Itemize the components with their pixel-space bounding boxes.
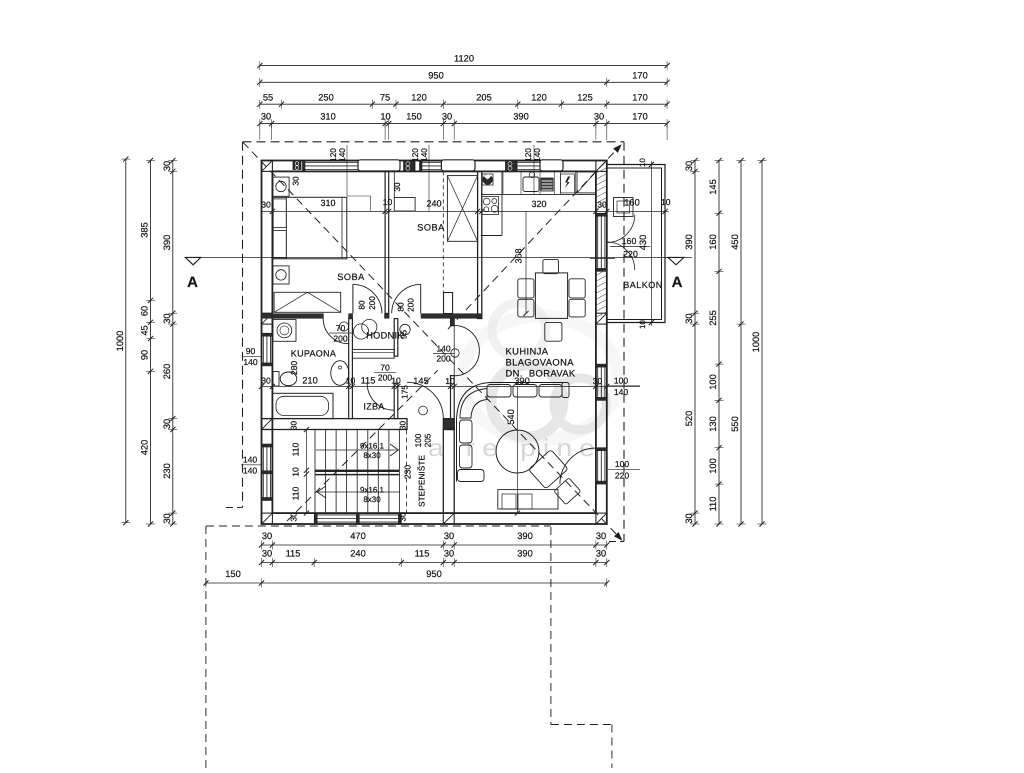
- sofa back L outline: [457, 383, 564, 482]
- balcony door DW right wall: [597, 213, 599, 271]
- svg-text:100: 100: [413, 433, 423, 447]
- svg-text:30: 30: [162, 161, 172, 171]
- svg-text:140: 140: [337, 148, 347, 162]
- wall B2 stub right of stair door: [443, 419, 454, 430]
- svg-text:BLAGOVAONA: BLAGOVAONA: [506, 357, 575, 368]
- hodnik circle near soba2 door: [400, 324, 410, 334]
- svg-text:200: 200: [333, 334, 348, 344]
- svg-text:390: 390: [513, 112, 529, 122]
- coffee table round: [496, 430, 539, 473]
- roof overhang dashed outline right: [623, 142, 625, 542]
- svg-text:SOBA: SOBA: [337, 272, 365, 282]
- svg-text:80: 80: [356, 300, 366, 310]
- svg-text:160: 160: [708, 234, 718, 250]
- svg-text:75: 75: [380, 92, 390, 102]
- wardrobe soba1: [274, 292, 341, 312]
- column marker: [262, 161, 273, 172]
- partition P1 soba1/soba2: [385, 171, 389, 313]
- svg-text:70: 70: [336, 323, 346, 333]
- svg-text:250: 250: [318, 92, 334, 102]
- svg-text:220: 220: [623, 249, 638, 259]
- svg-text:170: 170: [632, 112, 648, 122]
- window W5 glazing: [597, 448, 599, 484]
- living dim 540: [516, 386, 518, 513]
- svg-text:30: 30: [262, 549, 272, 559]
- svg-text:205: 205: [423, 433, 433, 447]
- dim chain right windows: [718, 161, 720, 525]
- toilet: [273, 372, 279, 387]
- window W4 glazing: [597, 364, 599, 400]
- window W4 jambs: [596, 364, 607, 367]
- window W7 jambs: [262, 444, 273, 447]
- svg-text:30: 30: [162, 313, 172, 323]
- roof diagonal NW-SE dashed: [243, 142, 619, 536]
- svg-text:30: 30: [261, 375, 271, 385]
- svg-text:30: 30: [162, 513, 172, 523]
- section marker A right triangle: [668, 257, 684, 264]
- svg-text:115: 115: [415, 549, 430, 559]
- dim chain right 450/550: [740, 161, 742, 525]
- dim chain left inner: [172, 161, 174, 525]
- dim chain top walls: [260, 123, 667, 125]
- exterior wall outer outline: [262, 161, 607, 525]
- svg-text:1000: 1000: [751, 332, 761, 353]
- svg-text:120: 120: [531, 92, 547, 102]
- door living terrace arc: [560, 448, 596, 484]
- svg-text:200: 200: [378, 373, 393, 383]
- svg-text:230: 230: [403, 465, 413, 480]
- svg-text:90: 90: [246, 346, 256, 356]
- sofa armrest end bottom: [458, 470, 485, 482]
- window W3 glazing: [517, 161, 540, 163]
- svg-text:950: 950: [428, 71, 444, 81]
- section line A-A: [185, 256, 692, 258]
- kitchen stove dark striped: [541, 178, 553, 191]
- sofa cushions horizontal: [487, 385, 511, 398]
- sofa armrest end top: [562, 383, 569, 398]
- svg-text:230: 230: [162, 463, 172, 479]
- kitchen sink unit: [523, 177, 539, 192]
- svg-text:210: 210: [302, 375, 318, 385]
- svg-text:110: 110: [291, 486, 301, 500]
- double door hodnik-living semicircle: [454, 325, 479, 375]
- hodnik ceiling lamp circles: [353, 324, 368, 339]
- svg-text:200: 200: [436, 354, 451, 364]
- wall stub P4 top in soba2: [444, 293, 453, 314]
- svg-text:280: 280: [289, 361, 299, 376]
- terrace dashed outline step vertical: [611, 725, 613, 769]
- svg-text:205: 205: [476, 92, 492, 102]
- svg-text:950: 950: [426, 569, 442, 579]
- svg-text:200: 200: [406, 298, 416, 312]
- partition P4 hodnik/living lower segment: [451, 376, 455, 430]
- door stairs arc: [407, 382, 443, 418]
- balcony outer rail: [607, 165, 665, 323]
- svg-text:520: 520: [684, 411, 694, 427]
- partition P6 below izba door: [394, 383, 398, 418]
- washing machine: [273, 319, 296, 341]
- svg-text:145: 145: [708, 179, 718, 195]
- window W1 crank block: [293, 161, 301, 170]
- nightstand top with lamp: [273, 177, 289, 196]
- dim chain top windows: [260, 103, 667, 105]
- interior dim row y211: [262, 210, 669, 212]
- door izba arc: [367, 383, 394, 410]
- svg-text:390: 390: [517, 531, 533, 541]
- svg-text:140: 140: [243, 357, 258, 367]
- roof overhang dashed left tail: [226, 507, 243, 509]
- svg-text:1120: 1120: [454, 54, 474, 64]
- window W2 crank block: [404, 161, 415, 172]
- svg-text:240: 240: [350, 549, 366, 559]
- double door knob circle: [451, 349, 459, 357]
- floor drain: [339, 322, 348, 331]
- svg-text:150: 150: [406, 112, 422, 122]
- svg-text:30: 30: [596, 531, 606, 541]
- svg-text:10: 10: [291, 467, 301, 477]
- nightstand bottom with lamp: [273, 266, 289, 284]
- svg-text:70: 70: [380, 363, 390, 373]
- dining chairs left: [518, 279, 534, 298]
- column marker: [262, 313, 273, 324]
- armchair rotated: [528, 450, 568, 489]
- kitchen counter top run: [482, 193, 596, 195]
- svg-text:110: 110: [291, 442, 301, 456]
- door soba2 arc: [392, 284, 421, 313]
- svg-text:30: 30: [444, 531, 454, 541]
- svg-text:140: 140: [243, 466, 258, 476]
- window W6 jambs: [262, 333, 273, 336]
- svg-text:100: 100: [708, 458, 718, 474]
- svg-text:8x30: 8x30: [363, 495, 381, 504]
- wardrobe soba2: [447, 176, 477, 242]
- svg-text:45: 45: [140, 325, 150, 335]
- column marker: [262, 419, 273, 430]
- balcony depth dim 430: [650, 161, 652, 326]
- svg-text:SOBA: SOBA: [417, 223, 445, 233]
- dim chain top 1120: [260, 65, 667, 67]
- svg-text:385: 385: [140, 222, 150, 238]
- svg-text:9x16,1: 9x16,1: [360, 442, 385, 451]
- svg-text:BALKON: BALKON: [623, 280, 663, 290]
- svg-text:DN. BORAVAK: DN. BORAVAK: [506, 368, 576, 379]
- svg-text:A: A: [187, 274, 198, 291]
- svg-text:30: 30: [684, 313, 694, 323]
- stairs width dims 110/10/110: [306, 430, 308, 514]
- roof overhang dashed outline top: [243, 141, 625, 143]
- kitchen sink basin square: [482, 174, 493, 185]
- svg-text:10: 10: [661, 197, 671, 207]
- partition P2 soba2/kitchen: [478, 171, 482, 318]
- bed pillows: [273, 199, 286, 228]
- sofa corner cushion: [460, 389, 487, 419]
- svg-text:100: 100: [614, 376, 629, 386]
- svg-text:390: 390: [684, 234, 694, 250]
- stair treads: [314, 430, 316, 514]
- terrace dashed outline left vertical: [205, 526, 207, 768]
- svg-text:120: 120: [411, 92, 427, 102]
- svg-text:IZBA: IZBA: [363, 402, 384, 412]
- svg-text:140: 140: [419, 148, 429, 162]
- svg-text:320: 320: [531, 199, 546, 209]
- roof diagonal SW-NE dashed upper: [448, 148, 619, 330]
- dim chain bottom walls: [262, 544, 607, 546]
- svg-text:390: 390: [517, 549, 533, 559]
- svg-text:HODNIK: HODNIK: [366, 331, 404, 341]
- stair flight arrow up: [316, 449, 397, 451]
- svg-text:125: 125: [577, 92, 593, 102]
- sofa cushions vertical: [460, 420, 473, 443]
- desk soba2: [394, 198, 415, 212]
- dim chain bottom windows: [262, 562, 607, 564]
- svg-text:STEPENIŠTE: STEPENIŠTE: [417, 454, 427, 507]
- svg-text:420: 420: [140, 440, 150, 456]
- svg-text:140: 140: [532, 148, 542, 162]
- window W1 roller box: [358, 160, 400, 171]
- svg-text:30: 30: [398, 421, 408, 431]
- svg-text:30: 30: [444, 549, 454, 559]
- window W2 roller box: [441, 160, 475, 171]
- dining chair top: [543, 259, 559, 273]
- svg-text:9x16,1: 9x16,1: [360, 486, 385, 495]
- svg-text:30: 30: [261, 200, 271, 210]
- window W6 glazing: [262, 333, 264, 366]
- window W2 jambs: [420, 161, 423, 172]
- terrace dashed outline under house: [206, 525, 551, 527]
- svg-text:430: 430: [638, 235, 648, 251]
- stairwell dashed edge: [406, 430, 408, 514]
- svg-text:470: 470: [350, 531, 366, 541]
- svg-text:55: 55: [263, 92, 273, 102]
- svg-text:30: 30: [392, 182, 402, 192]
- svg-text:KUHINJA: KUHINJA: [506, 346, 549, 357]
- wall hatch pier above balcony door: [597, 168, 607, 209]
- svg-text:10: 10: [638, 158, 647, 167]
- column marker: [596, 161, 607, 172]
- svg-text:260: 260: [162, 364, 172, 380]
- column marker: [596, 513, 607, 524]
- balcony furniture square: [614, 198, 634, 217]
- svg-text:450: 450: [730, 234, 740, 250]
- tv bench: [498, 490, 558, 509]
- svg-text:390: 390: [162, 235, 172, 251]
- partition P4 hodnik/living upper segment: [451, 319, 455, 326]
- svg-text:KUPAONA: KUPAONA: [291, 349, 336, 359]
- svg-text:540: 540: [506, 409, 516, 425]
- column marker: [262, 513, 273, 524]
- svg-text:30: 30: [162, 419, 172, 429]
- wall B2 kupaona/stairs band: [262, 419, 408, 430]
- window W5 jambs: [596, 448, 607, 451]
- svg-text:30: 30: [291, 176, 301, 186]
- izba closet: [352, 349, 394, 358]
- dim chain right inner: [694, 161, 696, 525]
- svg-text:1000: 1000: [115, 331, 125, 352]
- terrace dashed outline right vertical: [550, 527, 552, 725]
- window W1 jambs: [303, 161, 306, 172]
- svg-text:550: 550: [730, 416, 740, 432]
- door soba1 arc: [353, 284, 382, 313]
- door kupaona arc: [323, 319, 348, 344]
- svg-text:30: 30: [289, 512, 299, 522]
- window W7 mid divider: [262, 471, 273, 474]
- roof overhang dashed outline bottom-right: [609, 541, 624, 543]
- svg-text:175: 175: [400, 385, 410, 399]
- kitchen corner cabinet: [577, 172, 596, 193]
- svg-text:140: 140: [243, 455, 258, 465]
- svg-text:10: 10: [445, 376, 455, 386]
- window W1 glazing: [305, 161, 358, 163]
- svg-text:145: 145: [413, 376, 429, 386]
- balcony door swing arcs: [607, 215, 635, 243]
- svg-text:310: 310: [320, 112, 336, 122]
- svg-text:170: 170: [632, 71, 648, 81]
- stair door knob circle: [419, 406, 428, 415]
- svg-text:368: 368: [514, 248, 524, 263]
- wall hatch pier below balcony door: [597, 270, 607, 317]
- stair mid landing line: [315, 470, 399, 472]
- washbasin: [331, 361, 349, 386]
- svg-text:30: 30: [398, 512, 408, 522]
- terrace dashed outline step horizontal: [551, 724, 612, 726]
- svg-text:255: 255: [708, 310, 718, 326]
- svg-text:30: 30: [684, 161, 694, 171]
- kitchen counter dividers: [502, 171, 504, 194]
- window W3 jambs: [515, 161, 518, 172]
- partition P5 kupaona right: [349, 319, 353, 419]
- interior dim row y386: [262, 385, 641, 387]
- svg-text:10: 10: [638, 320, 647, 329]
- svg-text:60: 60: [140, 306, 150, 316]
- kitchen appliance lightning symbol: [561, 174, 575, 193]
- svg-text:170: 170: [632, 92, 648, 102]
- svg-text:30: 30: [594, 112, 604, 122]
- svg-text:150: 150: [225, 569, 241, 579]
- kitchen dim 368: [525, 211, 527, 313]
- dim chain left mid: [150, 161, 152, 525]
- window W3 crank block: [506, 161, 518, 172]
- window W8 bottom stairs: [314, 514, 401, 516]
- ottoman rotated: [554, 478, 581, 505]
- svg-text:8x30: 8x30: [363, 451, 381, 460]
- partition P6 izba/hodnik: [394, 319, 398, 357]
- exterior wall inner outline: [272, 171, 596, 513]
- svg-text:10: 10: [383, 197, 393, 207]
- svg-text:310: 310: [320, 198, 335, 208]
- svg-text:160: 160: [622, 236, 637, 246]
- balcony inner rail: [607, 168, 662, 320]
- roof diagonal SW-NE dashed lower: [287, 371, 438, 522]
- bathtub: [272, 393, 333, 418]
- wall P7 stairs/living: [443, 430, 454, 514]
- svg-text:30: 30: [262, 531, 272, 541]
- column marker: [443, 513, 454, 524]
- svg-text:220: 220: [615, 471, 630, 481]
- watermark logo ring: [462, 303, 618, 440]
- svg-text:115: 115: [361, 375, 376, 385]
- window W7 glazing: [262, 444, 264, 501]
- svg-text:160: 160: [624, 198, 640, 208]
- dim chain right 1000: [761, 161, 763, 525]
- dining chair bottom: [545, 322, 562, 341]
- section marker A left triangle: [185, 257, 200, 264]
- kitchen counter left run: [501, 171, 503, 235]
- window W2 glazing: [422, 161, 441, 163]
- svg-text:110: 110: [708, 497, 718, 512]
- svg-text:30: 30: [289, 421, 299, 431]
- svg-text:A: A: [672, 274, 683, 291]
- svg-text:200: 200: [367, 296, 377, 310]
- svg-text:140: 140: [436, 344, 451, 354]
- window W3 roller box: [540, 160, 563, 171]
- svg-text:10: 10: [380, 112, 390, 122]
- svg-text:30: 30: [684, 513, 694, 523]
- svg-text:115: 115: [286, 549, 301, 559]
- dim chain left 1000: [125, 159, 127, 523]
- svg-text:30: 30: [261, 112, 271, 122]
- column marker: [596, 313, 607, 324]
- svg-text:10: 10: [391, 375, 401, 385]
- svg-text:30: 30: [596, 549, 606, 559]
- svg-text:100: 100: [708, 374, 718, 390]
- svg-text:140: 140: [614, 387, 629, 397]
- kitchen cooktop burners: [482, 197, 499, 215]
- dim chain bottom 150/950: [206, 582, 607, 584]
- svg-text:130: 130: [708, 416, 718, 432]
- dim chain top 950/170: [260, 81, 667, 83]
- dining table: [535, 273, 567, 319]
- svg-text:80: 80: [396, 302, 406, 312]
- svg-text:30: 30: [597, 200, 607, 210]
- roof overhang dashed outline left: [242, 142, 244, 508]
- dining chairs right: [569, 279, 585, 298]
- niche dashed line soba2: [442, 171, 444, 292]
- svg-text:30: 30: [593, 376, 603, 386]
- wall B1 soba bottom band: [262, 313, 482, 318]
- dim extension ticks top: [259, 124, 261, 140]
- svg-text:90: 90: [140, 350, 150, 360]
- svg-text:30: 30: [442, 112, 452, 122]
- bed soba1: [273, 197, 347, 258]
- stair flight arrow low: [318, 491, 400, 493]
- svg-text:100: 100: [615, 459, 630, 469]
